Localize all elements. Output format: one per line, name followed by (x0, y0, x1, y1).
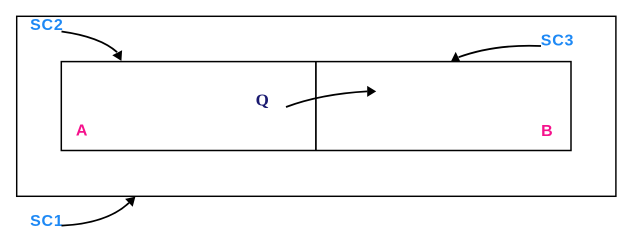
inner container box (61, 62, 571, 151)
svg-text:A: A (76, 123, 88, 140)
arrow from Q across partition (286, 86, 376, 107)
svg-text:SC1: SC1 (30, 213, 63, 230)
arrow from SC3 to inner box top edge (451, 46, 541, 62)
svg-text:B: B (541, 123, 553, 140)
arrow from SC1 to outer box bottom edge (62, 197, 136, 226)
svg-text:SC3: SC3 (541, 33, 574, 50)
svg-text:Q: Q (256, 90, 269, 109)
svg-text:SC2: SC2 (30, 17, 63, 34)
partition wall between A and B (315, 62, 317, 151)
arrow from SC2 to inner box top edge (62, 32, 123, 61)
outer boundary box (17, 16, 616, 196)
